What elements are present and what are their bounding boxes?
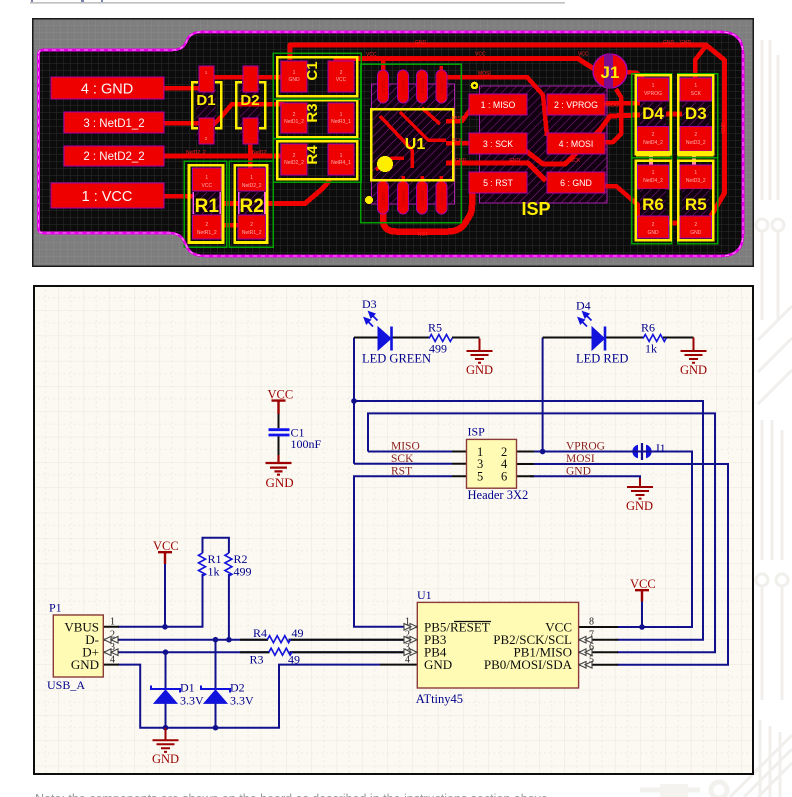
svg-text:49: 49 — [288, 653, 300, 667]
svg-text:D1: D1 — [196, 92, 215, 109]
svg-text:J1: J1 — [655, 441, 666, 455]
svg-text:RST: RST — [418, 232, 428, 238]
svg-text:PB0/MOSI/SDA: PB0/MOSI/SDA — [484, 657, 573, 672]
svg-text:GND: GND — [566, 466, 591, 478]
svg-text:1: 1 — [694, 170, 697, 176]
svg-text:7 SCK: 7 SCK — [401, 80, 406, 92]
svg-text:GND: GND — [71, 657, 99, 672]
hatch ISP — [480, 86, 608, 203]
svg-text:NetD3_2: NetD3_2 — [686, 178, 706, 184]
wire D4 to R6 link — [649, 149, 653, 166]
svg-text:VCC: VCC — [336, 77, 347, 83]
svg-text:1: 1 — [340, 112, 343, 118]
svg-text:GND: GND — [424, 657, 452, 672]
pad 4:GND — [51, 77, 164, 99]
svg-text:NetD2_2: NetD2_2 — [284, 160, 304, 166]
svg-text:R5: R5 — [428, 321, 442, 335]
pad 2:NetD2_2 — [64, 146, 164, 166]
pins P1 1-4 leads — [103, 627, 119, 665]
svg-text:1k: 1k — [208, 565, 220, 579]
wire RST curve — [383, 192, 472, 232]
svg-text:3.3V: 3.3V — [230, 694, 254, 708]
svg-text:PROG: PROG — [604, 103, 619, 109]
wire D1-D2-C1 top — [206, 75, 284, 80]
svg-text:GND: GND — [152, 752, 179, 766]
svg-text:GND: GND — [690, 230, 702, 236]
svg-text:GND: GND — [647, 230, 659, 236]
svg-text:GND: GND — [288, 77, 300, 83]
wire R1-R2 bottom link — [222, 223, 238, 228]
pad 1:VCC — [51, 183, 164, 208]
wire J1 to D4 top — [625, 72, 649, 85]
svg-text:ISP: ISP — [521, 199, 550, 219]
svg-text:1: 1 — [694, 83, 697, 89]
svg-text:GND: GND — [663, 40, 675, 46]
svg-text:SCK: SCK — [391, 453, 414, 465]
svg-text:NetD3_2: NetD3_2 — [686, 140, 706, 146]
capacitor C1 — [269, 430, 290, 435]
hatch D1 body — [196, 80, 216, 140]
svg-text:R6: R6 — [642, 195, 664, 214]
svg-text:VCC: VCC — [475, 52, 486, 58]
svg-text:R3: R3 — [304, 103, 321, 122]
svg-text:3 : SCK: 3 : SCK — [483, 139, 513, 149]
svg-text:2 : NetD2_2: 2 : NetD2_2 — [83, 151, 144, 163]
svg-text:NetD2_2: NetD2_2 — [186, 150, 206, 156]
junction node D- at D2 — [213, 637, 219, 643]
wire D2 bottom down — [248, 140, 253, 170]
wire U1 pin8 up VCC — [381, 59, 386, 73]
svg-text:2: 2 — [293, 153, 296, 159]
junction node VCC at U1 pin8 — [639, 624, 645, 630]
svg-text:4 GND: 4 GND — [440, 192, 445, 205]
svg-text:NetD1_2: NetD1_2 — [284, 119, 304, 125]
wire VCC mid top — [336, 59, 594, 71]
via small left — [365, 196, 373, 204]
svg-text:3 : NetD1_2: 3 : NetD1_2 — [83, 118, 144, 130]
wire ISP pin6 to GND — [530, 476, 640, 479]
svg-text:MISO: MISO — [391, 441, 420, 453]
svg-text:GND: GND — [680, 40, 692, 46]
svg-text:R2: R2 — [240, 196, 264, 217]
svg-text:Header 3X2: Header 3X2 — [468, 488, 529, 502]
svg-text:1: 1 — [340, 153, 343, 159]
junction node D- at R2 — [226, 637, 232, 643]
svg-text:SCK: SCK — [691, 91, 702, 97]
svg-text:MOSI: MOSI — [478, 71, 491, 77]
via big — [377, 156, 393, 172]
svg-text:4 : MOSI: 4 : MOSI — [559, 139, 594, 149]
wire U1 to SCK pad — [446, 141, 470, 146]
svg-text:GND: GND — [680, 363, 707, 377]
svg-text:VCC: VCC — [153, 539, 179, 553]
junction node GND at D1 — [163, 725, 169, 731]
svg-text:NetD2_2: NetD2_2 — [242, 183, 262, 189]
svg-text:2: 2 — [652, 132, 655, 138]
svg-text:3 NetR1: 3 NetR1 — [420, 190, 425, 206]
gray surround — [32, 18, 754, 267]
wire R2 to U1 curve — [222, 180, 330, 204]
wire U1 to MISO pad — [446, 110, 470, 121]
svg-text:P1: P1 — [49, 601, 62, 615]
svg-text:D4: D4 — [642, 104, 664, 123]
svg-text:2: 2 — [250, 222, 253, 228]
svg-text:1 : VCC: 1 : VCC — [82, 189, 133, 205]
svg-text:J1: J1 — [601, 63, 620, 82]
pad 3:NetD1_2 — [64, 112, 164, 133]
svg-text:2: 2 — [694, 132, 697, 138]
svg-text:D3: D3 — [362, 297, 377, 311]
svg-text:2 : VPROG: 2 : VPROG — [554, 100, 598, 110]
svg-text:VCC: VCC — [366, 52, 377, 58]
pins R4,R3 left leads — [240, 640, 270, 653]
junction node VPROG at D4 — [540, 449, 546, 455]
wire VCC right down to U1 pin8 — [641, 601, 643, 627]
pin D4 cathode to R6 and R6 to GND leads — [605, 337, 694, 339]
wire 3:NetD1_2 to D1 bottom — [164, 121, 202, 126]
svg-text:NetD4_2: NetD4_2 — [643, 140, 663, 146]
svg-text:NetR4_1: NetR4_1 — [331, 160, 351, 166]
junction node SCK at D3 — [351, 398, 357, 404]
svg-text:GND: GND — [466, 363, 493, 377]
svg-text:5 MOSI: 5 MOSI — [440, 79, 445, 93]
svg-text:C1: C1 — [304, 61, 321, 80]
svg-text:ISP: ISP — [468, 425, 486, 439]
cut-off heading text top — [0, 0, 600, 6]
svg-text:GND: GND — [626, 499, 653, 513]
wire SCK rail right to U1 pin7 — [354, 401, 703, 640]
wire D1 branch — [165, 652, 167, 728]
input arrows U1 left pins — [404, 624, 417, 656]
svg-text:1k: 1k — [645, 342, 657, 356]
ground — [266, 455, 292, 475]
wire D1 bottom to R3 — [210, 104, 284, 128]
pin D4 anode lead — [543, 337, 592, 339]
board outline black fill — [39, 32, 744, 256]
wire R6-R5 gnd link — [668, 221, 681, 226]
svg-text:6 MISO: 6 MISO — [420, 78, 425, 93]
svg-text:D1: D1 — [180, 681, 195, 695]
svg-text:GND: GND — [415, 40, 427, 46]
svg-text:6 : GND: 6 : GND — [560, 178, 592, 188]
wire RST rail to U1 pin1 — [354, 476, 452, 627]
traces inside U1 — [380, 116, 412, 168]
svg-text:1: 1 — [293, 70, 296, 76]
pins ISP 2,4,6 right leads — [516, 452, 534, 477]
hatch D2 body — [240, 80, 260, 140]
svg-text:1 : MISO: 1 : MISO — [481, 100, 516, 110]
arrows U1 right pins — [579, 636, 592, 668]
svg-text:MISO: MISO — [452, 116, 465, 122]
svg-text:R3: R3 — [250, 653, 264, 667]
svg-text:VCC: VCC — [630, 577, 656, 591]
svg-text:U1: U1 — [417, 588, 432, 602]
wire VPROG row + J1 to VCC junction — [530, 452, 692, 628]
hatched courtyard regions — [196, 56, 613, 204]
wire GND row mid — [446, 163, 546, 181]
pins U1 1-4 left leads — [289, 627, 418, 665]
wire MOSI top — [446, 77, 547, 136]
svg-text:SCK: SCK — [452, 138, 463, 144]
hatch U1 body — [372, 84, 455, 204]
svg-text:8: 8 — [589, 617, 594, 628]
svg-text:1: 1 — [652, 170, 655, 176]
svg-text:R4: R4 — [253, 626, 267, 640]
wire D2 branch — [215, 640, 217, 728]
wire 4:GND to D1 — [164, 86, 202, 91]
svg-text:2: 2 — [293, 112, 296, 118]
svg-text:4: 4 — [110, 655, 115, 666]
svg-text:NetD2: NetD2 — [252, 150, 266, 156]
svg-text:8 VCC: 8 VCC — [381, 80, 386, 92]
svg-text:VCC: VCC — [578, 52, 589, 58]
svg-text:GND: GND — [509, 158, 521, 164]
wire D+ row — [118, 651, 405, 653]
svg-text:MOSI: MOSI — [566, 453, 595, 465]
svg-text:SCK: SCK — [570, 158, 581, 164]
svg-text:499: 499 — [234, 565, 252, 579]
svg-text:RST: RST — [391, 466, 412, 478]
svg-text:D2: D2 — [230, 681, 245, 695]
svg-text:2: 2 — [652, 222, 655, 228]
svg-text:D2: D2 — [240, 92, 259, 109]
wire D3 top up — [695, 46, 706, 86]
svg-text:NetR1_2: NetR1_2 — [242, 230, 262, 236]
wire VCC left down to VBUS — [164, 563, 166, 627]
svg-text:U1: U1 — [405, 136, 426, 153]
svg-text:49: 49 — [292, 626, 304, 640]
svg-text:6: 6 — [501, 470, 507, 484]
wire D3 to R5 link — [692, 149, 696, 166]
svg-text:ATtiny45: ATtiny45 — [416, 692, 463, 706]
svg-text:2: 2 — [340, 70, 343, 76]
wire VPROG pad to D4 — [602, 101, 640, 106]
svg-text:100nF: 100nF — [291, 437, 322, 451]
wire SCK pad to D3 — [526, 114, 700, 164]
wire D3 anode vertical + SCK row to ISP — [354, 338, 452, 464]
U1 bottom pads stubs — [401, 176, 405, 186]
wire GND row P1 down and across — [118, 665, 380, 728]
cut-off caption text bottom — [35, 793, 735, 797]
svg-text:D3: D3 — [685, 104, 707, 123]
svg-text:NetD4_2: NetD4_2 — [643, 178, 663, 184]
wire J1 to MOSI pad — [602, 89, 621, 142]
wire VBUS row + R1 + bridge + R2 — [118, 538, 229, 640]
svg-text:4 : GND: 4 : GND — [81, 82, 133, 98]
svg-text:4: 4 — [405, 655, 410, 666]
wire MISO rail to U1 pin6 — [368, 413, 715, 652]
svg-text:1: 1 — [205, 175, 208, 181]
junction node GND at D2 — [213, 725, 219, 731]
pins U1 8-5 right leads — [579, 627, 618, 665]
svg-text:D4: D4 — [576, 299, 591, 313]
svg-text:R1: R1 — [195, 196, 220, 217]
svg-text:GND: GND — [455, 158, 467, 164]
svg-text:NetR1_2: NetR1_2 — [197, 230, 217, 236]
svg-text:3.3V: 3.3V — [180, 694, 204, 708]
svg-text:NetR3_1: NetR3_1 — [331, 119, 351, 125]
svg-text:499: 499 — [429, 342, 447, 356]
wire GND top long — [290, 45, 725, 216]
U1 top pads stubs — [439, 66, 443, 74]
junction node VCC at VBUS — [162, 624, 168, 630]
svg-text:5: 5 — [477, 470, 483, 484]
svg-text:R4: R4 — [304, 145, 321, 165]
wire 2:NetD2_2 long — [164, 154, 284, 159]
board magenta outline — [39, 32, 744, 256]
bidirectional arrows pins 2,3 — [104, 636, 118, 655]
svg-text:LED GREEN: LED GREEN — [362, 352, 431, 366]
U1 top pads — [378, 70, 389, 103]
svg-text:VPROG: VPROG — [644, 91, 662, 97]
pin D3 anode lead — [354, 337, 378, 339]
svg-text:2: 2 — [205, 222, 208, 228]
svg-text:2 NetR1: 2 NetR1 — [401, 190, 406, 206]
svg-text:GND: GND — [721, 122, 727, 134]
svg-text:VPROG: VPROG — [566, 441, 605, 453]
wire MOSI row to U1 pin5 — [530, 464, 728, 665]
wire 1:VCC to R1 — [164, 194, 200, 199]
svg-text:LED RED: LED RED — [576, 352, 628, 366]
wire GND pad to R6 — [602, 186, 638, 218]
svg-text:5 : RST: 5 : RST — [483, 178, 513, 188]
tiny red net labels on traces — [186, 40, 727, 238]
svg-text:1: 1 — [652, 83, 655, 89]
U1 bottom pads — [378, 181, 389, 214]
via small top — [471, 82, 479, 90]
svg-text:VCC: VCC — [202, 183, 213, 189]
svg-text:1 RST: 1 RST — [381, 192, 386, 204]
svg-text:R5: R5 — [685, 195, 707, 214]
U1 body outline — [371, 109, 453, 180]
hatch J1 band — [604, 56, 613, 88]
svg-text:R6: R6 — [641, 321, 655, 335]
pins ISP 1,3,5 left leads — [452, 452, 467, 477]
net labels around ISP — [391, 441, 605, 478]
wire D4 anode vertical — [542, 338, 544, 452]
svg-text:GND: GND — [266, 475, 294, 490]
pin D3 cathode to R5 and R5 to GND leads — [392, 337, 480, 339]
junction node D+ at D1 — [163, 649, 169, 655]
svg-text:1: 1 — [110, 617, 115, 628]
svg-text:2: 2 — [694, 222, 697, 228]
svg-text:USB_A: USB_A — [47, 678, 85, 692]
wire D- row — [118, 639, 405, 641]
svg-text:1: 1 — [250, 175, 253, 181]
